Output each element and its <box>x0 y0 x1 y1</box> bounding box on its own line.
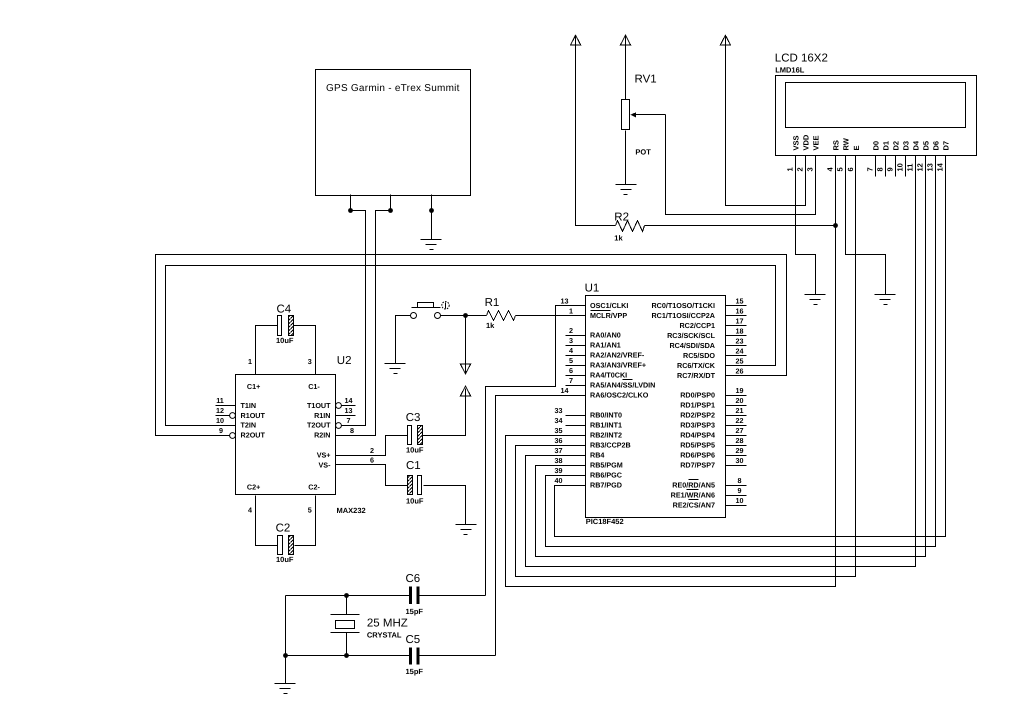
U1 pin 4 RA2/AN2/VREF- <box>566 346 645 360</box>
svg-text:25 MHZ: 25 MHZ <box>367 618 408 630</box>
U2 pin 4 C2+ wire <box>248 496 278 546</box>
svg-text:4: 4 <box>569 346 573 355</box>
ground under GPS <box>421 240 442 250</box>
svg-text:2: 2 <box>370 446 374 455</box>
wire LCD D5 to U1 RB5 <box>536 177 926 557</box>
RV1 wiper arrow <box>630 112 665 117</box>
svg-text:VS+: VS+ <box>317 451 331 460</box>
svg-text:C1+: C1+ <box>247 382 260 391</box>
svg-text:RS: RS <box>831 140 840 150</box>
wire C1 to ground <box>424 486 466 525</box>
node R2/RS junction <box>833 223 838 228</box>
svg-text:RA5/AN4/SS/LVDIN: RA5/AN4/SS/LVDIN <box>590 381 655 390</box>
wire left link rails <box>285 596 287 656</box>
svg-text:RA2/AN2/VREF-: RA2/AN2/VREF- <box>590 351 645 360</box>
LCD pin 5 RW stub+labels <box>836 137 851 176</box>
wire U1 RC7 to U2 R2OUT loop <box>156 255 787 436</box>
LCD pin 8 D1 stub+labels <box>876 141 891 177</box>
svg-text:10uF: 10uF <box>276 336 294 345</box>
U1 pin 35 RB2/INT2 <box>555 426 622 440</box>
node GPS TX junction <box>348 208 353 213</box>
svg-text:12: 12 <box>916 163 925 171</box>
svg-text:RD6/PSP6: RD6/PSP6 <box>680 451 715 460</box>
svg-text:7: 7 <box>569 376 573 385</box>
svg-text:3: 3 <box>569 336 573 345</box>
U1 pin 16 RC1/T1OSI/CCP2A <box>651 307 746 321</box>
wire LCD D7 to U1 RB7 <box>555 177 946 537</box>
U1 pin 13 OSC1/CLKI <box>561 297 629 311</box>
svg-text:RD3/PSP3: RD3/PSP3 <box>680 421 715 430</box>
svg-text:PIC18F452: PIC18F452 <box>586 517 624 526</box>
svg-text:D1: D1 <box>881 141 890 151</box>
svg-text:RB1/INT1: RB1/INT1 <box>590 421 622 430</box>
U1 pin 21 RD2/PSP2 <box>680 406 746 420</box>
svg-text:37: 37 <box>555 446 563 455</box>
svg-text:2: 2 <box>569 326 573 335</box>
U1 pin 3 RA1/AN1 <box>566 336 621 350</box>
svg-text:1k: 1k <box>614 234 623 243</box>
svg-text:11: 11 <box>906 164 915 172</box>
node GPS GND junction <box>429 208 434 213</box>
svg-text:9: 9 <box>219 426 223 435</box>
svg-text:U2: U2 <box>337 355 352 367</box>
wire button right to R1 <box>441 315 487 317</box>
U1 pin 15 RC0/T1OSO/T1CKI <box>651 297 746 311</box>
ground LCD VSS <box>805 295 826 305</box>
svg-text:RA0/AN0: RA0/AN0 <box>590 331 621 340</box>
svg-text:R2OUT: R2OUT <box>241 431 266 440</box>
ground button <box>385 364 406 374</box>
svg-text:C2-: C2- <box>308 483 320 492</box>
svg-text:29: 29 <box>736 446 744 455</box>
U1 pin 23 RC4/SDI/SDA <box>669 337 746 351</box>
U1 pin 30 RD7/PSP7 <box>680 456 746 470</box>
U1 pin 7 RA5/AN4/SS/LVDIN <box>566 376 656 390</box>
svg-text:2: 2 <box>796 167 805 171</box>
GPS pin 1 wire <box>350 195 352 211</box>
svg-text:15: 15 <box>736 297 744 306</box>
svg-text:R2: R2 <box>614 212 629 224</box>
svg-text:34: 34 <box>555 416 563 425</box>
U2 pin 12 R1OUT stub <box>216 406 236 418</box>
svg-text:RC3/SCK/SCL: RC3/SCK/SCL <box>667 331 716 340</box>
svg-text:U1: U1 <box>585 283 600 295</box>
U2 pin 14 T1OUT stub <box>336 396 356 408</box>
svg-text:RB4: RB4 <box>590 451 604 460</box>
wire R1 to U1 MCLR <box>516 315 586 317</box>
node crystal top junction <box>344 593 349 598</box>
svg-text:VSS: VSS <box>791 135 800 150</box>
svg-text:RC0/T1OSO/T1CKI: RC0/T1OSO/T1CKI <box>651 301 715 310</box>
svg-text:1: 1 <box>569 307 573 316</box>
svg-text:9: 9 <box>738 486 742 495</box>
svg-text:7: 7 <box>347 416 351 425</box>
svg-text:RD0/PSP0: RD0/PSP0 <box>680 391 715 400</box>
svg-text:1k: 1k <box>486 321 495 330</box>
potentiometer RV1 body <box>622 100 630 130</box>
svg-text:RB0/INT0: RB0/INT0 <box>590 411 622 420</box>
svg-text:VEE: VEE <box>811 135 820 150</box>
U1 pin 33 RB0/INT0 <box>555 406 622 420</box>
svg-text:16: 16 <box>736 307 744 316</box>
U1 pin 29 RD6/PSP6 <box>680 446 746 460</box>
capacitor C2 <box>278 536 294 555</box>
svg-text:8: 8 <box>738 476 742 485</box>
svg-text:LMD16L: LMD16L <box>775 65 805 74</box>
capacitor C3 <box>408 426 423 445</box>
U2 pin 9 R2OUT bubble <box>219 426 235 438</box>
U1 pin 34 RB1/INT1 <box>555 416 622 430</box>
svg-text:4: 4 <box>248 505 252 514</box>
svg-text:D6: D6 <box>931 141 940 151</box>
wire LCD VSS to ground <box>796 177 816 295</box>
node crystal bottom junction <box>344 653 349 658</box>
terminal arrow down (MCLR node) <box>460 316 470 374</box>
svg-text:6: 6 <box>846 167 855 171</box>
wire crystal bottom rail <box>286 655 410 657</box>
svg-text:C4: C4 <box>277 304 292 316</box>
svg-text:RE1/WR/AN6: RE1/WR/AN6 <box>671 491 715 500</box>
ground crystal rail <box>275 684 296 694</box>
svg-text:10uF: 10uF <box>406 496 424 505</box>
svg-text:35: 35 <box>555 426 563 435</box>
LCD pin 1 VSS stub+labels <box>786 135 801 176</box>
svg-text:26: 26 <box>736 367 744 376</box>
svg-text:7: 7 <box>866 167 875 171</box>
svg-text:21: 21 <box>736 406 744 415</box>
U2 MAX232 box <box>236 375 336 495</box>
ground under RV1 <box>616 185 637 195</box>
LCD LCD1 outer box <box>776 76 977 156</box>
svg-text:LCD 16X2: LCD 16X2 <box>775 53 828 65</box>
svg-text:C5: C5 <box>406 634 421 646</box>
U2 pin 7 T2OUT bubble <box>336 416 351 428</box>
svg-text:22: 22 <box>736 416 744 425</box>
svg-text:3: 3 <box>308 357 312 366</box>
terminal arrow up (C3 node) <box>423 386 471 435</box>
svg-text:R1OUT: R1OUT <box>241 411 266 420</box>
svg-text:RA1/AN1: RA1/AN1 <box>590 341 621 350</box>
capacitor C6 <box>409 587 419 604</box>
U1 pin 19 RD0/PSP0 <box>680 386 746 400</box>
svg-text:RC1/T1OSI/CCP2A: RC1/T1OSI/CCP2A <box>651 311 715 320</box>
U1 pin 40 RB7/PGD <box>555 476 622 490</box>
svg-text:T1IN: T1IN <box>241 401 257 410</box>
svg-text:40: 40 <box>555 476 563 485</box>
node MCLR junction <box>463 313 468 318</box>
svg-text:RD4/PSP4: RD4/PSP4 <box>680 431 715 440</box>
svg-text:RD2/PSP2: RD2/PSP2 <box>680 411 715 420</box>
LCD pin 10 D3 stub+labels <box>896 141 911 177</box>
svg-text:RB6/PGC: RB6/PGC <box>590 471 622 480</box>
svg-text:RA6/OSC2/CLKO: RA6/OSC2/CLKO <box>590 391 649 400</box>
wire LCD RS to U1 RB2 <box>506 177 836 587</box>
wire power#3 to LCD VDD <box>726 45 806 206</box>
U1 PIC18F452 box <box>586 296 726 518</box>
svg-text:24: 24 <box>736 347 744 356</box>
svg-text:17: 17 <box>736 317 744 326</box>
U1 pin 26 RC7/RX/DT <box>677 367 743 381</box>
U1 pin 25 RC6/TX/CK <box>677 357 743 371</box>
svg-text:R1: R1 <box>485 297 500 309</box>
LCD pin 9 D2 stub+labels <box>886 141 901 177</box>
svg-text:D0: D0 <box>871 141 880 151</box>
svg-text:8: 8 <box>876 167 885 171</box>
svg-text:T2IN: T2IN <box>241 421 257 430</box>
svg-text:20: 20 <box>736 396 744 405</box>
svg-text:T2OUT: T2OUT <box>307 421 331 430</box>
svg-text:10: 10 <box>896 163 905 171</box>
svg-text:5: 5 <box>836 167 845 171</box>
svg-text:25: 25 <box>736 357 744 366</box>
U1 pin 36 RB3/CCP2B <box>555 436 631 450</box>
svg-text:10: 10 <box>216 416 224 425</box>
svg-text:C6: C6 <box>406 573 421 585</box>
U2 pin 3 C1- wire <box>294 326 316 375</box>
LCD pin 11 D4 stub+labels <box>906 140 921 176</box>
svg-text:RC7/RX/DT: RC7/RX/DT <box>677 371 716 380</box>
svg-text:15pF: 15pF <box>406 607 424 616</box>
LCD pin 14 D7 stub+labels <box>936 141 951 177</box>
node GPS RX junction <box>388 208 393 213</box>
wire button left to ground <box>396 316 411 364</box>
svg-text:D4: D4 <box>911 140 920 150</box>
svg-text:R1IN: R1IN <box>314 411 330 420</box>
svg-text:10: 10 <box>736 496 744 505</box>
U1 pin 1 MCLR/VPP <box>569 307 627 321</box>
U1 pin 2 RA0/AN0 <box>566 326 621 340</box>
wire U1 RC6 to U2 T2IN loop <box>166 266 776 426</box>
U1 pin 37 RB4 <box>555 446 605 460</box>
svg-text:C1-: C1- <box>308 382 320 391</box>
ground LCD RW <box>875 295 896 305</box>
svg-text:RV1: RV1 <box>635 74 657 86</box>
svg-text:VS-: VS- <box>319 460 332 469</box>
svg-text:13: 13 <box>926 163 935 171</box>
svg-text:POT: POT <box>635 148 651 157</box>
GPS pin 2 wire <box>390 195 392 211</box>
svg-text:RA4/T0CKI: RA4/T0CKI <box>590 371 627 380</box>
wire LCD RW to ground <box>846 177 886 295</box>
LCD pin 4 RS stub+labels <box>826 140 841 176</box>
wire power#2 to RV1 top <box>625 45 627 100</box>
svg-text:10uF: 10uF <box>406 445 424 454</box>
wire RV1 wiper to LCD VEE <box>666 115 816 215</box>
wire U1 RA6/OSC2 to crystal/C5 <box>496 396 586 656</box>
node bottom rail left junction <box>283 653 288 658</box>
svg-text:10uF: 10uF <box>276 555 294 564</box>
wire U1 OSC1 to crystal/C6 <box>486 306 586 596</box>
capacitor C5 <box>409 647 419 664</box>
svg-text:33: 33 <box>555 406 563 415</box>
LCD pin 7 D0 stub+labels <box>866 141 881 177</box>
svg-text:MCLR/VPP: MCLR/VPP <box>590 311 627 320</box>
svg-text:9: 9 <box>886 167 895 171</box>
svg-text:11: 11 <box>216 396 224 405</box>
U1 pin 5 RA3/AN3/VREF+ <box>566 356 647 370</box>
svg-text:C3: C3 <box>406 412 421 424</box>
U2 pin 6 VS- wire to C1 <box>336 456 408 486</box>
U1 pin 28 RD5/PSP5 <box>680 436 746 450</box>
svg-text:C1: C1 <box>406 460 421 472</box>
svg-text:14: 14 <box>345 396 353 405</box>
svg-text:6: 6 <box>569 366 573 375</box>
svg-text:RD7/PSP7: RD7/PSP7 <box>680 461 715 470</box>
svg-text:GPS Garmin - eTrex Summit: GPS Garmin - eTrex Summit <box>326 83 460 94</box>
U2 pin 2 VS+ wire to C3 <box>336 436 408 456</box>
crystal X1 <box>331 596 360 656</box>
U1 pin 18 RC3/SCK/SCL <box>667 327 746 341</box>
U1 pin 8 RE0/RD/AN5 <box>672 476 746 490</box>
U1 pin 24 RC5/SDO <box>683 347 746 361</box>
svg-text:RB3/CCP2B: RB3/CCP2B <box>590 441 631 450</box>
svg-text:VDD: VDD <box>801 134 810 150</box>
svg-text:RC5/SDO: RC5/SDO <box>683 351 715 360</box>
U1 pin 20 RD1/PSP1 <box>680 396 746 410</box>
svg-text:14: 14 <box>936 162 945 171</box>
svg-text:RC4/SDI/SDA: RC4/SDI/SDA <box>669 341 715 350</box>
wire LCD D6 to U1 RB6 <box>546 177 936 547</box>
svg-text:CRYSTAL: CRYSTAL <box>367 630 402 639</box>
svg-text:RE0/RD/AN5: RE0/RD/AN5 <box>672 481 715 490</box>
resistor R1 <box>487 311 516 321</box>
LCD pin 13 D6 stub+labels <box>926 141 941 177</box>
svg-text:D3: D3 <box>901 141 910 151</box>
svg-text:27: 27 <box>736 426 744 435</box>
svg-text:E: E <box>852 145 861 150</box>
U1 pin 38 RB5/PGM <box>555 456 623 470</box>
svg-text:1: 1 <box>786 167 795 171</box>
wire LCD D4 to U1 RB4 <box>526 177 916 567</box>
wire LCD E to U1 RB3 <box>516 177 856 577</box>
svg-text:1: 1 <box>248 357 252 366</box>
wire C6 right to OSC1 <box>420 595 486 597</box>
capacitor C4 <box>278 316 294 336</box>
svg-text:MAX232: MAX232 <box>337 506 366 515</box>
U1 pin 27 RD4/PSP4 <box>680 426 746 440</box>
svg-text:R2IN: R2IN <box>314 431 330 440</box>
svg-text:28: 28 <box>736 436 744 445</box>
svg-text:RB5/PGM: RB5/PGM <box>590 461 623 470</box>
svg-text:13: 13 <box>345 406 353 415</box>
svg-text:38: 38 <box>555 456 563 465</box>
U1 pin 10 RE2/CS/AN7 <box>673 496 747 510</box>
svg-text:6: 6 <box>370 456 374 465</box>
svg-text:19: 19 <box>736 386 744 395</box>
wire bottom rail to ground <box>285 656 287 684</box>
U2 pin 1 C1+ wire <box>248 326 278 375</box>
svg-text:RD1/PSP1: RD1/PSP1 <box>680 401 715 410</box>
svg-text:RW: RW <box>841 137 850 150</box>
U2 pin 11 T1IN stub <box>216 396 236 405</box>
U1 pin 6 RA4/T0CKI <box>566 366 628 380</box>
svg-text:RD5/PSP5: RD5/PSP5 <box>680 441 715 450</box>
wire GPS RX to U2 R2IN <box>336 211 391 436</box>
power terminal #1 (R2) <box>571 35 581 45</box>
svg-text:RE2/CS/AN7: RE2/CS/AN7 <box>673 501 715 510</box>
wire R2 to LCD RS line <box>645 225 836 227</box>
wire crystal top rail <box>286 595 410 597</box>
GPS pin 3 wire <box>431 195 433 240</box>
svg-text:13: 13 <box>561 297 569 306</box>
U1 pin 39 RB6/PGC <box>555 466 622 480</box>
svg-text:14: 14 <box>561 386 569 395</box>
U1 pin 14 RA6/OSC2/CLKO <box>561 386 649 400</box>
svg-text:RC6/TX/CK: RC6/TX/CK <box>677 361 716 370</box>
svg-text:12: 12 <box>216 406 224 415</box>
power terminal #3 (LCD VDD) <box>720 35 730 45</box>
LCD pin 2 VDD stub+labels <box>796 134 811 176</box>
svg-text:RB2/INT2: RB2/INT2 <box>590 431 622 440</box>
svg-text:8: 8 <box>350 426 354 435</box>
LCD pin 12 D5 stub+labels <box>916 141 931 177</box>
svg-text:30: 30 <box>736 456 744 465</box>
svg-text:D5: D5 <box>921 141 930 151</box>
resistor R2 <box>616 221 645 232</box>
U1 pin 9 RE1/WR/AN6 <box>671 486 747 500</box>
svg-text:5: 5 <box>569 356 573 365</box>
svg-text:OSC1/CLKI: OSC1/CLKI <box>590 301 628 310</box>
wire RV1 bottom to ground <box>625 131 627 185</box>
svg-text:3: 3 <box>806 167 815 171</box>
svg-text:RA3/AN3/VREF+: RA3/AN3/VREF+ <box>590 361 646 370</box>
svg-text:RB7/PGD: RB7/PGD <box>590 481 622 490</box>
wire GPS TX to U2 T2OUT <box>342 211 366 426</box>
svg-text:D2: D2 <box>891 141 900 151</box>
svg-text:18: 18 <box>736 327 744 336</box>
ground C1 <box>456 525 477 535</box>
LCD pin 6 E stub+labels <box>846 145 861 176</box>
wire C5 right to OSC2 <box>420 655 496 657</box>
U2 pin 13 R1IN stub <box>336 406 356 415</box>
svg-text:C2+: C2+ <box>247 483 260 492</box>
svg-text:23: 23 <box>736 337 744 346</box>
svg-text:RC2/CCP1: RC2/CCP1 <box>679 321 715 330</box>
power terminal #2 (RV1) <box>621 35 631 45</box>
svg-text:D7: D7 <box>941 141 950 151</box>
svg-text:C2: C2 <box>276 523 291 535</box>
GPS module box <box>316 70 471 196</box>
U1 pin 22 RD3/PSP3 <box>680 416 746 430</box>
U1 pin 17 RC2/CCP1 <box>679 317 746 331</box>
U2 pin 5 C2- wire <box>295 496 316 546</box>
svg-text:15pF: 15pF <box>406 667 424 676</box>
capacitor C1 <box>408 476 422 495</box>
svg-text:36: 36 <box>555 436 563 445</box>
svg-text:39: 39 <box>555 466 563 475</box>
wire power#1 to R2 <box>576 45 616 226</box>
svg-text:5: 5 <box>308 505 312 514</box>
svg-text:T1OUT: T1OUT <box>307 401 331 410</box>
push button SW <box>411 302 450 319</box>
LCD pin 3 VEE stub+labels <box>806 135 821 176</box>
